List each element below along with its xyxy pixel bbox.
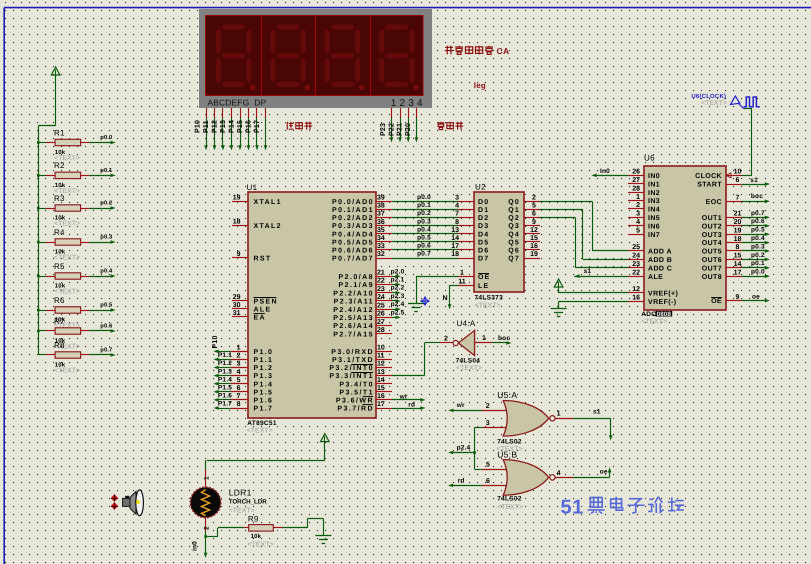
svg-text:s1: s1: [584, 268, 592, 275]
svg-text:ABCDEFG DP: ABCDEFG DP: [208, 98, 267, 108]
svg-text:IN3: IN3: [648, 198, 660, 205]
svg-text:PSEN: PSEN: [254, 299, 278, 306]
svg-text:21: 21: [377, 270, 385, 277]
svg-text:4: 4: [455, 203, 459, 210]
svg-text:R7: R7: [54, 317, 65, 326]
svg-text:25: 25: [377, 302, 385, 309]
svg-text:6: 6: [736, 177, 740, 184]
svg-text:<TEXT>: <TEXT>: [701, 100, 727, 107]
svg-text:P12: P12: [211, 120, 218, 133]
svg-text:P0.1/AD1: P0.1/AD1: [332, 206, 374, 214]
svg-text:<TEXT>: <TEXT>: [54, 221, 80, 228]
svg-text:15: 15: [530, 235, 538, 242]
svg-text:<TEXT>: <TEXT>: [54, 368, 80, 375]
svg-text:15: 15: [734, 253, 742, 260]
svg-text:Q7: Q7: [508, 256, 520, 263]
svg-text:R4: R4: [54, 228, 65, 237]
svg-text:R1: R1: [54, 128, 65, 137]
svg-text:p0.4: p0.4: [751, 235, 765, 242]
svg-text:P14: P14: [228, 120, 235, 133]
svg-text:2: 2: [636, 202, 640, 209]
svg-text:37: 37: [377, 211, 385, 218]
svg-text:IN2: IN2: [648, 190, 660, 197]
svg-text:P2.3/A11: P2.3/A11: [334, 298, 374, 306]
svg-text:p0.1: p0.1: [100, 167, 113, 174]
svg-text:R5: R5: [54, 262, 65, 271]
svg-text:s1: s1: [750, 177, 758, 184]
svg-text:Q2: Q2: [508, 215, 520, 222]
svg-text:Q5: Q5: [508, 239, 520, 246]
svg-text:P3.4/T0: P3.4/T0: [339, 380, 374, 388]
svg-text:12: 12: [377, 361, 385, 368]
svg-text:22: 22: [377, 278, 385, 285]
svg-text:P2.0/A8: P2.0/A8: [339, 273, 374, 281]
svg-text:P1.2: P1.2: [254, 365, 274, 372]
svg-text:<TEXT>: <TEXT>: [475, 303, 501, 310]
svg-text:oe: oe: [752, 293, 760, 300]
svg-text:0808: 0808: [657, 311, 672, 318]
svg-text:P1.1: P1.1: [254, 357, 274, 364]
svg-text:P0.4/AD4: P0.4/AD4: [332, 230, 374, 238]
svg-text:4: 4: [557, 470, 561, 477]
svg-text:21: 21: [734, 211, 742, 218]
svg-text:XTAL2: XTAL2: [254, 223, 282, 230]
svg-text:3: 3: [237, 361, 241, 368]
svg-text:EA: EA: [254, 315, 266, 322]
svg-text:p0.1: p0.1: [751, 260, 765, 267]
svg-text:1: 1: [482, 335, 486, 342]
svg-text:74LS04: 74LS04: [456, 358, 481, 365]
svg-text:P0.5/AD5: P0.5/AD5: [332, 238, 374, 246]
svg-text:Q0: Q0: [508, 199, 520, 206]
svg-text:Q4: Q4: [508, 231, 520, 238]
svg-text:9: 9: [532, 219, 536, 226]
svg-text:P2.2/A10: P2.2/A10: [333, 289, 374, 297]
svg-text:P3.3/INT1: P3.3/INT1: [329, 372, 374, 380]
svg-text:OE: OE: [478, 274, 491, 281]
svg-text:P2.6/A14: P2.6/A14: [333, 322, 374, 330]
svg-text:5: 5: [486, 462, 490, 469]
svg-text:U5:B: U5:B: [497, 450, 517, 460]
svg-text:p0.6: p0.6: [751, 218, 765, 225]
svg-text:P0.3/AD3: P0.3/AD3: [332, 222, 374, 230]
svg-text:18: 18: [233, 219, 241, 226]
svg-text:OUT4: OUT4: [702, 240, 722, 247]
svg-text:39: 39: [377, 195, 385, 202]
svg-text:R6: R6: [54, 296, 65, 305]
svg-text:ALE: ALE: [254, 307, 272, 314]
svg-text:P2.1/A9: P2.1/A9: [339, 281, 374, 289]
svg-text:ADD B: ADD B: [648, 257, 672, 264]
svg-text:P21: P21: [397, 123, 404, 136]
svg-text:P22: P22: [388, 123, 395, 136]
svg-text:p0.2: p0.2: [751, 252, 765, 259]
svg-text:R8: R8: [54, 341, 65, 350]
svg-text:D0: D0: [478, 199, 489, 206]
svg-text:1: 1: [557, 411, 561, 418]
svg-text:P0.0/AD0: P0.0/AD0: [332, 198, 374, 206]
svg-text:LDR1: LDR1: [229, 487, 252, 497]
svg-text:XTAL1: XTAL1: [254, 199, 282, 206]
svg-text:P15: P15: [237, 120, 244, 133]
svg-text:16: 16: [377, 393, 385, 400]
svg-text:D6: D6: [478, 248, 489, 255]
svg-text:VREF(-): VREF(-): [648, 298, 676, 306]
svg-text:LE: LE: [478, 283, 489, 290]
svg-text:EOC: EOC: [706, 199, 722, 206]
svg-text:p2.2: p2.2: [391, 285, 405, 292]
svg-text:P1.4: P1.4: [254, 381, 274, 388]
svg-text:6: 6: [237, 385, 241, 392]
svg-text:23: 23: [377, 286, 385, 293]
svg-text:<TEXT>: <TEXT>: [229, 508, 255, 515]
svg-text:19: 19: [734, 227, 742, 234]
svg-text:P0.2/AD2: P0.2/AD2: [332, 214, 374, 222]
svg-text:Q1: Q1: [508, 207, 520, 214]
svg-text:R3: R3: [54, 194, 65, 203]
svg-text:OUT2: OUT2: [702, 223, 722, 230]
svg-text:<TEXT>: <TEXT>: [497, 504, 523, 511]
svg-text:31: 31: [233, 310, 241, 317]
svg-text:14: 14: [451, 235, 459, 242]
svg-text:P11: P11: [203, 120, 210, 133]
svg-text:IN4: IN4: [648, 207, 660, 214]
svg-text:OUT7: OUT7: [702, 265, 722, 272]
svg-text:11: 11: [377, 353, 385, 360]
svg-text:14: 14: [734, 261, 742, 268]
svg-text:p0.2: p0.2: [417, 210, 431, 217]
svg-text:9: 9: [237, 251, 241, 258]
svg-text:19: 19: [530, 251, 538, 258]
svg-text:74LS02: 74LS02: [497, 439, 522, 446]
svg-text:P1.4: P1.4: [218, 376, 232, 383]
svg-text:p0.3: p0.3: [751, 243, 765, 250]
svg-text:P2.7/A15: P2.7/A15: [333, 330, 374, 338]
svg-text:D1: D1: [478, 207, 489, 214]
svg-text:22: 22: [632, 269, 640, 276]
svg-text:6: 6: [532, 211, 536, 218]
svg-text:Q6: Q6: [508, 248, 520, 255]
svg-text:30: 30: [233, 302, 241, 309]
svg-text:IN6: IN6: [648, 223, 660, 230]
svg-text:19: 19: [233, 195, 241, 202]
svg-text:P2.5/A13: P2.5/A13: [333, 314, 374, 322]
svg-text:ADD C: ADD C: [648, 265, 672, 272]
svg-text:P17: P17: [254, 120, 261, 133]
svg-text:51: 51: [561, 497, 584, 519]
svg-text:ADC: ADC: [641, 311, 656, 318]
svg-text:p0.3: p0.3: [417, 218, 431, 225]
svg-text:27: 27: [632, 177, 640, 184]
svg-text:17: 17: [377, 401, 385, 408]
svg-text:OUT8: OUT8: [702, 274, 722, 281]
svg-text:D2: D2: [478, 215, 489, 222]
svg-text:<TEXT>: <TEXT>: [248, 542, 274, 549]
svg-text:p2.3: p2.3: [391, 293, 405, 300]
svg-text:p0.5: p0.5: [417, 235, 431, 242]
svg-text:P1.6: P1.6: [254, 398, 274, 405]
svg-text:p0.6: p0.6: [417, 243, 431, 250]
svg-text:4: 4: [636, 219, 640, 226]
svg-text:2: 2: [203, 526, 210, 530]
svg-text:R2: R2: [54, 161, 65, 170]
svg-text:10: 10: [377, 345, 385, 352]
svg-text:<TEXT>: <TEXT>: [247, 428, 273, 435]
svg-text:3: 3: [455, 195, 459, 202]
svg-text:27: 27: [377, 319, 385, 326]
svg-text:rd: rd: [458, 477, 465, 484]
svg-text:p0.4: p0.4: [417, 226, 431, 233]
svg-text:OUT1: OUT1: [702, 215, 722, 222]
svg-text:17: 17: [734, 269, 742, 276]
svg-text:P3.0/RXD: P3.0/RXD: [331, 348, 374, 356]
svg-text:8: 8: [237, 401, 241, 408]
svg-text:5: 5: [636, 227, 640, 234]
svg-text:26: 26: [377, 311, 385, 318]
svg-text:p0.0: p0.0: [417, 194, 431, 201]
svg-text:IN1: IN1: [648, 181, 660, 188]
svg-text:14: 14: [377, 377, 385, 384]
svg-text:74LS02: 74LS02: [497, 496, 522, 503]
svg-text:p2.5: p2.5: [391, 309, 405, 316]
svg-text:R9: R9: [248, 515, 259, 524]
svg-text:P3.2/INT0: P3.2/INT0: [329, 364, 374, 372]
svg-text:OUT6: OUT6: [702, 257, 722, 264]
svg-text:IN5: IN5: [648, 215, 660, 222]
svg-text:P3.6/WR: P3.6/WR: [336, 397, 374, 405]
svg-text:11: 11: [458, 279, 466, 286]
svg-text:33: 33: [377, 243, 385, 250]
svg-text:OUT5: OUT5: [702, 249, 722, 256]
svg-text:P2.4/A12: P2.4/A12: [333, 306, 374, 314]
svg-text:RST: RST: [254, 255, 272, 262]
svg-text:U4:A: U4:A: [457, 319, 476, 328]
svg-text:P1.2: P1.2: [218, 360, 232, 367]
svg-text:AT89C51: AT89C51: [247, 420, 277, 427]
svg-text:23: 23: [632, 261, 640, 268]
svg-text:<TEXT>: <TEXT>: [641, 318, 667, 325]
svg-text:IN7: IN7: [648, 232, 660, 239]
svg-text:24: 24: [377, 294, 385, 301]
svg-text:ALE: ALE: [648, 274, 663, 281]
svg-text:D7: D7: [478, 256, 489, 263]
svg-text:p2.4: p2.4: [391, 301, 405, 308]
svg-text:16: 16: [530, 243, 538, 250]
svg-text:rd: rd: [408, 401, 415, 408]
svg-text:P20: P20: [405, 123, 412, 136]
svg-text:p2.4: p2.4: [457, 445, 471, 452]
svg-text:P1.7: P1.7: [218, 401, 232, 408]
svg-text:P16: P16: [245, 120, 252, 133]
svg-text:36: 36: [377, 219, 385, 226]
svg-text:8: 8: [455, 219, 459, 226]
svg-text:U2: U2: [475, 183, 486, 192]
svg-text:In0: In0: [600, 168, 610, 175]
svg-text:P1.7: P1.7: [254, 406, 274, 413]
svg-text:IN0: IN0: [648, 173, 660, 180]
svg-text:13: 13: [451, 227, 459, 234]
svg-text:TORCH_LDR: TORCH_LDR: [229, 499, 268, 506]
svg-text:5: 5: [237, 377, 241, 384]
svg-text:10k: 10k: [251, 533, 262, 540]
svg-text:boc: boc: [751, 193, 763, 200]
svg-text:15: 15: [377, 385, 385, 392]
svg-text:CLOCK: CLOCK: [695, 173, 722, 180]
svg-text:2: 2: [237, 353, 241, 360]
svg-text:6: 6: [486, 478, 490, 485]
svg-text:U6(CLOCK): U6(CLOCK): [691, 93, 726, 100]
svg-text:P3.7/RD: P3.7/RD: [337, 405, 374, 413]
svg-text:13: 13: [377, 369, 385, 376]
svg-text:U6: U6: [644, 154, 655, 163]
svg-text:P13: P13: [220, 120, 227, 133]
svg-text:ADD A: ADD A: [648, 249, 672, 256]
svg-text:p0.7: p0.7: [417, 251, 431, 258]
svg-text:p0.2: p0.2: [100, 200, 112, 207]
svg-text:<TEXT>: <TEXT>: [54, 255, 80, 262]
svg-text:p0.0: p0.0: [100, 134, 112, 141]
svg-text:CA: CA: [497, 46, 510, 56]
svg-text:s1: s1: [593, 409, 601, 416]
svg-text:18: 18: [734, 236, 742, 243]
svg-text:16: 16: [632, 295, 640, 302]
svg-text:17: 17: [451, 243, 459, 250]
svg-text:10: 10: [734, 169, 742, 176]
svg-text:p2.0: p2.0: [391, 268, 405, 275]
svg-text:3: 3: [636, 211, 640, 218]
svg-text:5: 5: [532, 203, 536, 210]
svg-text:28: 28: [632, 185, 640, 192]
svg-text:24: 24: [632, 253, 640, 260]
svg-text:1: 1: [636, 194, 640, 201]
svg-text:p0.4: p0.4: [100, 268, 113, 275]
svg-text:P1.5: P1.5: [254, 389, 274, 396]
svg-text:2: 2: [444, 336, 448, 343]
svg-text:3: 3: [486, 420, 490, 427]
svg-text:P3.5/T1: P3.5/T1: [339, 388, 374, 396]
svg-text:wr: wr: [456, 402, 465, 409]
svg-text:U5:A: U5:A: [497, 390, 517, 400]
svg-text:P10: P10: [212, 335, 219, 348]
svg-text:Q3: Q3: [508, 223, 520, 230]
svg-text:P0.7/AD7: P0.7/AD7: [332, 255, 374, 263]
svg-text:P1.5: P1.5: [218, 385, 232, 392]
svg-text:32: 32: [377, 251, 385, 258]
svg-text:P3.1/TXD: P3.1/TXD: [332, 356, 374, 364]
svg-text:P1.6: P1.6: [218, 393, 232, 400]
svg-text:oe: oe: [600, 469, 608, 476]
svg-text:p0.5: p0.5: [100, 302, 113, 309]
svg-text:p0.1: p0.1: [417, 202, 431, 209]
svg-text:wr: wr: [399, 393, 408, 400]
svg-text:VREF(+): VREF(+): [648, 290, 678, 298]
svg-text:28: 28: [377, 327, 385, 334]
svg-text:D5: D5: [478, 239, 489, 246]
svg-text:P1.0: P1.0: [254, 349, 274, 356]
svg-text:p0.6: p0.6: [100, 323, 113, 330]
svg-text:1: 1: [460, 270, 464, 277]
svg-text:12: 12: [632, 286, 640, 293]
svg-text:P1.3: P1.3: [254, 373, 274, 380]
svg-text:7: 7: [237, 393, 241, 400]
svg-text:38: 38: [377, 203, 385, 210]
svg-text:29: 29: [233, 294, 241, 301]
svg-text:74LS373: 74LS373: [475, 295, 504, 302]
svg-text:OE: OE: [711, 298, 722, 305]
svg-text:P23: P23: [380, 123, 387, 136]
svg-text:D4: D4: [478, 231, 489, 238]
svg-text:p2.1: p2.1: [391, 277, 405, 284]
svg-text:2: 2: [532, 195, 536, 202]
svg-text:P1.3: P1.3: [218, 368, 232, 375]
svg-text:p0.0: p0.0: [751, 269, 765, 276]
svg-text:4: 4: [237, 369, 241, 376]
svg-text:9: 9: [736, 294, 740, 301]
svg-text:boc: boc: [498, 335, 510, 342]
svg-text:P0.6/AD6: P0.6/AD6: [332, 247, 374, 255]
svg-text:18: 18: [451, 251, 459, 258]
svg-text:12: 12: [530, 227, 538, 234]
svg-text:D3: D3: [478, 223, 489, 230]
svg-text:START: START: [697, 182, 722, 189]
svg-text:1 2 3 4: 1 2 3 4: [391, 98, 423, 109]
svg-text:7: 7: [455, 211, 459, 218]
svg-text:p0.5: p0.5: [751, 227, 765, 234]
svg-text:p0.7: p0.7: [751, 210, 765, 217]
svg-text:in0: in0: [191, 541, 198, 551]
svg-text:<TEXT>: <TEXT>: [54, 289, 80, 296]
svg-text:35: 35: [377, 227, 385, 234]
svg-text:8: 8: [736, 244, 740, 251]
svg-text:26: 26: [632, 169, 640, 176]
svg-text:1: 1: [237, 345, 241, 352]
svg-text:25: 25: [632, 244, 640, 251]
svg-text:N: N: [443, 295, 448, 302]
svg-text:leg: leg: [474, 81, 486, 90]
svg-text:P1.1: P1.1: [218, 352, 232, 359]
svg-text:20: 20: [734, 219, 742, 226]
svg-text:<TEXT>: <TEXT>: [456, 365, 482, 372]
svg-text:P10: P10: [194, 120, 201, 133]
svg-text:7: 7: [736, 195, 740, 202]
svg-text:p0.7: p0.7: [100, 347, 112, 354]
svg-text:U1: U1: [247, 183, 258, 192]
svg-text:p0.3: p0.3: [100, 234, 113, 241]
svg-text:1: 1: [203, 476, 210, 480]
svg-text:34: 34: [377, 235, 385, 242]
svg-text:2: 2: [486, 403, 490, 410]
svg-text:OUT3: OUT3: [702, 232, 722, 239]
